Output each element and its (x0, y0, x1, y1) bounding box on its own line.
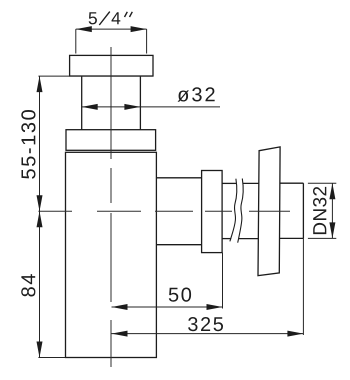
dimension 55-130 lines (38, 76, 153, 211)
dimension 325 lines (112, 238, 304, 335)
dimension 5/4 label (89, 12, 133, 25)
dimension 84 arrows (37, 211, 43, 357)
dimension DN32 label (313, 187, 327, 234)
dimension o32 lines (82, 106, 220, 108)
dimension 325 arrows (112, 331, 304, 337)
pipe break wavy lines (230, 179, 243, 243)
outlet nut (202, 171, 223, 253)
dimension 325 label (188, 317, 223, 331)
cup flange (66, 130, 156, 151)
vertical center line (110, 47, 112, 367)
inlet threaded pipe (82, 76, 141, 130)
top nut (70, 55, 153, 76)
outlet pipe end section (280, 183, 304, 238)
dimension 50 arrows (112, 304, 223, 310)
dimension DN32 lines (308, 183, 336, 238)
dimension o32 arrows (82, 104, 141, 110)
dimension 84 label (21, 274, 35, 296)
dimension 50 label (169, 288, 191, 302)
outlet pipe section 1 (156, 178, 201, 245)
dimension 55-130 label (21, 110, 35, 179)
outlet pipe section 2 (222, 183, 259, 238)
cup body (66, 152, 157, 357)
horizontal center line (38, 210, 290, 212)
dimension 84 lines (38, 211, 65, 357)
dimension 5/4 lines (76, 29, 147, 53)
dimension 5/4 arrows (76, 26, 147, 32)
dimension o32 label (178, 87, 215, 101)
wall rosette (258, 147, 280, 276)
dimension DN32 arrows (329, 183, 335, 238)
dimension 55-130 arrows (37, 76, 43, 211)
dimension 50 lines (112, 253, 223, 309)
